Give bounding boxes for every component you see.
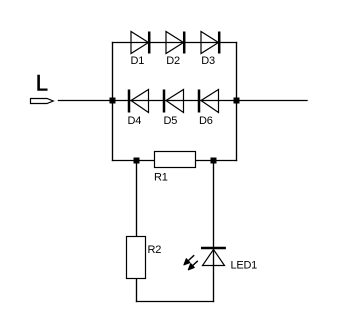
wire: bottom horizontal [137, 301, 214, 303]
svg-text:D5: D5 [164, 115, 178, 127]
svg-text:D3: D3 [201, 55, 215, 67]
LED1 emission arrow 1 [184, 255, 194, 265]
wire: R1 row right segment [196, 160, 237, 162]
wire: R2 branch down [136, 161, 138, 237]
LED LED1 cathode bar [201, 247, 226, 250]
svg-text:LED1: LED1 [231, 260, 258, 272]
svg-text:D1: D1 [131, 55, 145, 67]
wire: right vertical of loop [236, 43, 238, 161]
junction dot: left of middle wire [110, 98, 116, 104]
svg-text:D6: D6 [199, 115, 213, 127]
LED1 emission arrow 2 [188, 261, 198, 270]
diode D1 [131, 32, 149, 54]
wire: LED branch vertical [213, 161, 215, 302]
terminal L [31, 99, 54, 104]
wire: middle horizontal line L [59, 100, 308, 102]
LED LED1 triangle [203, 250, 225, 266]
diode D5 [164, 90, 184, 113]
wire: R1 row left segment [113, 160, 155, 162]
diode D3 [201, 32, 219, 54]
resistor R1 [155, 152, 196, 168]
svg-text:R1: R1 [154, 172, 168, 184]
wire: left vertical of loop [112, 43, 114, 161]
svg-text:L: L [36, 71, 48, 96]
wire: top horizontal of diode loop [113, 42, 237, 44]
junction dot: right of middle wire [234, 98, 240, 104]
diode D2 [166, 32, 184, 54]
svg-text:R2: R2 [148, 244, 162, 256]
diode D6 [199, 90, 219, 113]
diode D4 [129, 90, 149, 113]
wire: R2 bottom lead [136, 279, 138, 302]
svg-text:D4: D4 [128, 115, 142, 127]
junction dot: right of R1 row [211, 158, 217, 164]
junction dot: left of R1 row [134, 158, 140, 164]
resistor R2 [127, 237, 146, 279]
svg-text:D2: D2 [166, 55, 180, 67]
